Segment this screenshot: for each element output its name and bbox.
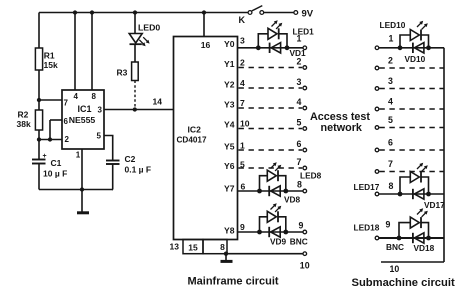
LED LED1 (268, 20, 314, 39)
diode VD8 (269, 186, 300, 205)
wire: IC2 pin16 to rail (203, 13, 205, 37)
wire: IC1 pin3 to IC2 pin14 (104, 97, 174, 110)
wire: R3 to clock line (134, 81, 136, 110)
LED LED9 (267, 203, 281, 222)
node junction Y0 left (256, 45, 261, 50)
wire: row to terminal 2 (dashed) (239, 56, 307, 69)
node junction sub8 left (398, 192, 403, 197)
ground (77, 190, 89, 213)
svg-text:5: 5 (297, 117, 302, 127)
svg-text:7: 7 (240, 98, 245, 108)
wire: LED17 bypass loop (400, 177, 429, 194)
resistor R3 (117, 62, 139, 81)
svg-text:BNC: BNC (290, 236, 308, 246)
wire: common return bus (443, 48, 445, 262)
svg-text:Y2: Y2 (224, 80, 235, 90)
svg-text:NE555: NE555 (69, 115, 96, 125)
wire: LED1 bypass loop (258, 34, 287, 48)
resistor R1 15k (35, 48, 58, 70)
capacitor C1 10uF (32, 153, 67, 179)
wire: sub row 1 (379, 47, 444, 49)
svg-text:8: 8 (220, 242, 225, 252)
wire: sub row 2 (dashed) (375, 56, 444, 70)
svg-text:4: 4 (240, 78, 245, 88)
svg-text:9: 9 (386, 220, 391, 230)
node 9V terminal (264, 9, 314, 20)
wire: R1 bottom to R2 top (38, 70, 40, 110)
wire: sub row 3 (dashed) (375, 76, 444, 90)
svg-text:VD18: VD18 (414, 243, 435, 253)
svg-text:14: 14 (153, 97, 163, 107)
wire: IC1 pin4 to rail (74, 13, 76, 91)
wire: sub row 10 (381, 262, 444, 274)
svg-text:8: 8 (92, 92, 97, 101)
svg-text:2: 2 (65, 135, 70, 144)
wire: row to terminal 5 (dashed) (239, 117, 307, 130)
wire: row to terminal 4 (dashed) (239, 97, 307, 110)
node junction Y7 right (283, 189, 288, 194)
IC2 output pin numbers (240, 36, 250, 233)
ground (221, 254, 233, 262)
svg-text:4: 4 (388, 97, 393, 107)
svg-text:IC1: IC1 (77, 104, 91, 114)
svg-text:K: K (239, 15, 246, 25)
node terminal 10 (300, 252, 310, 271)
svg-text:LED10: LED10 (380, 20, 406, 30)
LED LED8 (267, 162, 321, 181)
IC U1: IC1 NE555 timer (62, 90, 104, 149)
node junction sub1 left (398, 45, 403, 50)
svg-text:Y6: Y6 (224, 161, 235, 171)
node junction ground (80, 187, 84, 191)
svg-text:2: 2 (240, 58, 245, 68)
wire: sub row 5 (dashed) (375, 115, 444, 129)
svg-text:8: 8 (389, 181, 394, 191)
svg-text:VD8: VD8 (284, 194, 301, 204)
node terminal 9 (299, 221, 307, 234)
node terminal 1 (297, 34, 307, 50)
svg-text:3: 3 (98, 106, 103, 115)
svg-text:LED18: LED18 (354, 223, 380, 233)
wire: IC1 pin6 to pin2 (39, 120, 62, 142)
wire: LED0 to R3 (134, 44, 136, 62)
node junction pin2 (37, 137, 41, 141)
diode VD18 (413, 233, 435, 253)
svg-text:Submachine circuit: Submachine circuit (352, 277, 455, 289)
IC U2: IC2 CD4017 decade counter (174, 37, 238, 240)
svg-text:15: 15 (188, 243, 198, 253)
node sub terminal 8 (375, 181, 393, 196)
wire: Y7 output row (238, 190, 303, 192)
resistor R2 38k (17, 110, 43, 131)
svg-text:10: 10 (390, 264, 400, 274)
pin 1 label IC1 (76, 151, 81, 160)
svg-text:3: 3 (388, 76, 393, 86)
wire: bottom rail (39, 189, 113, 191)
svg-text:9: 9 (240, 222, 245, 232)
svg-text:15k: 15k (44, 60, 58, 70)
svg-text:1: 1 (297, 34, 302, 44)
svg-text:network: network (321, 122, 363, 134)
diode VD1 (270, 43, 306, 58)
IC2 pin 8 box (203, 240, 227, 254)
IC2 pin 13 label (170, 242, 180, 252)
IC2 pin 15 box (183, 240, 203, 254)
wire: LED10 bypass loop (400, 35, 429, 48)
svg-text:Y0: Y0 (224, 39, 235, 49)
wire: R2 bottom to C1 (38, 130, 40, 160)
switch K (239, 6, 264, 25)
svg-text:Y1: Y1 (224, 59, 235, 69)
svg-text:6: 6 (297, 139, 302, 149)
wire: sub row 8 (379, 193, 444, 195)
svg-text:R3: R3 (117, 68, 128, 78)
svg-text:Mainframe circuit: Mainframe circuit (188, 276, 279, 288)
svg-text:8: 8 (297, 180, 302, 190)
node junction Y8 left (257, 230, 262, 235)
node junction sub1 right (426, 45, 431, 50)
wire: sub row 6 (dashed) (375, 138, 444, 152)
svg-text:2: 2 (297, 56, 302, 66)
diode VD9 (269, 227, 286, 247)
label BNC submachine (386, 242, 404, 252)
svg-text:2: 2 (388, 56, 393, 66)
wire: IC1 pin5 to C2 (104, 136, 113, 161)
svg-text:10: 10 (240, 119, 250, 129)
node terminal 8 (297, 180, 307, 193)
node junction sub9 left (397, 236, 402, 241)
LED LED17 (354, 163, 428, 192)
svg-text:R1: R1 (44, 51, 55, 61)
LED LED0 (129, 23, 160, 47)
svg-text:1: 1 (240, 141, 245, 151)
node junction pin8 rail (90, 10, 94, 14)
wire: row to terminal 7 (dashed) (239, 157, 307, 170)
svg-text:4: 4 (74, 92, 79, 101)
node junction LED0 rail (133, 10, 137, 14)
node junction Y8 right (283, 230, 288, 235)
svg-text:0.1 µ F: 0.1 µ F (125, 165, 152, 175)
svg-text:3: 3 (240, 36, 245, 46)
svg-text:Y3: Y3 (224, 100, 235, 110)
node junction sub9 right (426, 236, 431, 241)
svg-text:BNC: BNC (386, 242, 404, 252)
svg-text:LED0: LED0 (138, 23, 160, 33)
svg-text:C1: C1 (51, 158, 62, 168)
diode VD17 (413, 189, 445, 210)
wire: IC1 pin7 (39, 99, 62, 101)
svg-text:1: 1 (389, 34, 394, 44)
svg-text:7: 7 (64, 98, 69, 107)
svg-text:3: 3 (297, 77, 302, 87)
label BNC mainframe (290, 236, 308, 246)
svg-text:Y7: Y7 (224, 184, 235, 194)
svg-text:IC2: IC2 (188, 125, 202, 135)
node sub terminal 9 (375, 220, 390, 240)
svg-text:16: 16 (201, 40, 211, 50)
svg-text:Y4: Y4 (224, 120, 235, 130)
wire: row to terminal 6 (dashed) (239, 139, 307, 152)
wire: sub row 9 (379, 237, 444, 239)
node junction pin16 rail (202, 10, 206, 14)
wire: Y8 output row (238, 231, 303, 233)
svg-text:VD10: VD10 (405, 54, 426, 64)
diode VD10 (405, 43, 426, 64)
wire: row to terminal 3 (dashed) (239, 77, 307, 90)
wire: LED9 bypass loop (260, 217, 286, 232)
svg-text:5: 5 (97, 132, 102, 141)
svg-text:9V: 9V (302, 9, 314, 20)
node junction Y0 right (285, 45, 290, 50)
LED LED18 (354, 208, 428, 232)
wire: LED8 bypass loop (260, 176, 286, 191)
svg-text:CD4017: CD4017 (177, 135, 207, 144)
svg-text:10: 10 (300, 261, 310, 271)
svg-text:5: 5 (388, 115, 393, 125)
capacitor C2 0.1uF (106, 154, 151, 175)
wire: IC1 pin8 to rail (91, 13, 93, 91)
wire: LED0 branch top (134, 13, 136, 34)
wire: ground line to terminal 10 (227, 253, 303, 255)
node junction clock line (133, 107, 137, 111)
svg-text:10 µ F: 10 µ F (43, 169, 67, 179)
svg-text:Y5: Y5 (224, 142, 235, 152)
node junction IC2 ground (224, 252, 228, 256)
wire: C2 to bottom rail (112, 164, 114, 190)
svg-text:Y8: Y8 (224, 226, 235, 236)
node junction pin4 rail (73, 10, 77, 14)
svg-text:LED8: LED8 (300, 171, 322, 181)
svg-text:VD9: VD9 (270, 237, 287, 247)
wire: Y0 output row (238, 47, 303, 49)
wire: sub row 4 (dashed) (375, 97, 444, 111)
svg-text:6: 6 (388, 138, 393, 148)
svg-text:6: 6 (241, 182, 246, 192)
svg-text:VD17: VD17 (424, 200, 445, 210)
label Mainframe circuit (188, 276, 279, 288)
svg-text:R2: R2 (18, 110, 29, 120)
svg-text:1: 1 (76, 151, 81, 160)
svg-text:9: 9 (299, 221, 304, 231)
node junction pin7 (37, 98, 41, 102)
wire: sub row 7 (dashed) (375, 159, 444, 173)
LED LED10 (380, 20, 428, 41)
label Access test network (310, 111, 370, 134)
label Submachine circuit (352, 277, 455, 289)
svg-text:13: 13 (170, 242, 180, 252)
wire: +9V supply rail (39, 13, 248, 49)
svg-text:7: 7 (388, 159, 393, 169)
node junction Y7 left (257, 189, 262, 194)
svg-text:38k: 38k (17, 119, 31, 129)
svg-text:C2: C2 (125, 154, 136, 164)
wire: LED18 bypass loop (399, 223, 429, 238)
node junction sub8 right (426, 192, 431, 197)
wire: IC1 pin1 to rail (81, 149, 83, 190)
svg-text:+: + (43, 153, 47, 160)
node sub terminal 1 (375, 34, 393, 50)
svg-text:7: 7 (297, 157, 302, 167)
wire: C1 bottom (38, 164, 40, 190)
svg-text:4: 4 (297, 97, 302, 107)
svg-text:LED17: LED17 (354, 182, 380, 192)
